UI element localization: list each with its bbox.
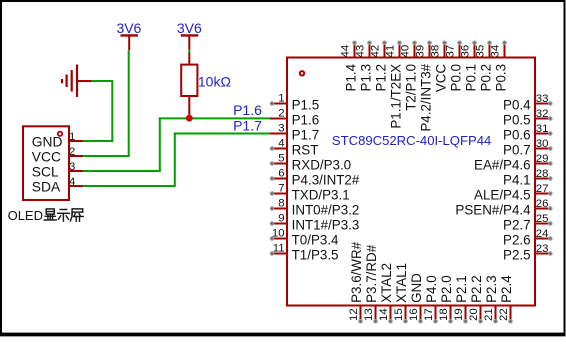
CJK char shi (58, 210, 69, 222)
wire gnd to OLED pin1 (83, 140, 113, 142)
svg-text:3V6: 3V6 (177, 20, 202, 36)
svg-text:P1.4: P1.4 (343, 63, 358, 91)
svg-text:P0.1: P0.1 (463, 64, 478, 92)
svg-text:P1.3: P1.3 (358, 64, 373, 92)
OLED pin 2 VCC (69, 155, 83, 157)
svg-text:16: 16 (408, 308, 420, 321)
U1 pin 2 P1.6 (270, 118, 287, 120)
U1 pin 15 XTAL1 (405, 306, 407, 322)
svg-text:22: 22 (498, 308, 510, 321)
svg-text:P1.7: P1.7 (292, 127, 320, 142)
U1 pin 38 VCC (444, 44, 446, 58)
svg-text:OLED: OLED (8, 208, 43, 223)
svg-text:P0.2: P0.2 (478, 64, 493, 92)
U1 pin 42 P1.2 (384, 44, 386, 58)
wire 3V6 to OLED pin2 (83, 155, 129, 157)
svg-text:T1/P3.5: T1/P3.5 (292, 247, 339, 262)
svg-text:P2.6: P2.6 (503, 232, 531, 247)
OLED pin-1 indicator circle (58, 132, 62, 136)
svg-text:P0.0: P0.0 (448, 64, 463, 92)
svg-text:1: 1 (69, 131, 75, 143)
svg-text:8: 8 (278, 197, 284, 209)
U1 pin 44 P1.4 (354, 44, 356, 58)
svg-text:39: 39 (415, 45, 427, 58)
wire SDA horizontal (83, 185, 176, 187)
U1 pin 20 P2.2 (480, 306, 482, 322)
svg-text:P4.3/INT2#: P4.3/INT2# (292, 172, 360, 187)
svg-text:1: 1 (278, 92, 284, 104)
U1 pin-1 indicator circle (300, 71, 304, 75)
U1 pin 41 P1.1/T2EX (399, 44, 401, 58)
svg-text:P2.3: P2.3 (484, 275, 499, 303)
svg-text:4: 4 (69, 176, 75, 188)
svg-text:18: 18 (438, 308, 450, 321)
svg-text:5: 5 (278, 152, 284, 164)
svg-text:10: 10 (272, 227, 285, 239)
svg-text:GND: GND (32, 135, 63, 150)
svg-text:34: 34 (490, 45, 502, 58)
svg-text:36: 36 (460, 45, 472, 58)
U1 pin 8 INT0#/P3.2 (272, 208, 287, 210)
wire net P1.6 (159, 117, 270, 119)
svg-text:32: 32 (536, 108, 549, 120)
U1 pin 36 P0.1 (474, 44, 476, 58)
U1 pin 43 P1.3 (369, 44, 371, 58)
svg-text:P0.5: P0.5 (503, 112, 531, 127)
OLED pin 4 SDA (69, 185, 83, 187)
wire 3V6 vertical (128, 50, 130, 156)
U1 pin 31 P0.6 (535, 133, 550, 135)
svg-text:23: 23 (536, 243, 549, 255)
svg-text:37: 37 (445, 45, 457, 58)
svg-text:7: 7 (278, 182, 284, 194)
svg-text:41: 41 (385, 45, 397, 58)
U1 pin 11 T1/P3.5 (272, 253, 287, 255)
wire gnd horizontal (91, 80, 113, 82)
wire SDA vertical (174, 132, 176, 186)
svg-text:T2/P1.0: T2/P1.0 (403, 64, 418, 111)
svg-text:VCC: VCC (433, 64, 448, 93)
U1 pin 39 P4.2/INT3# (429, 44, 431, 58)
svg-text:40: 40 (400, 45, 412, 58)
svg-text:20: 20 (468, 308, 480, 321)
svg-text:P1.6: P1.6 (292, 112, 320, 127)
svg-text:P0.6: P0.6 (503, 127, 531, 142)
svg-text:TXD/P3.1: TXD/P3.1 (292, 187, 350, 202)
svg-text:XTAL2: XTAL2 (379, 263, 394, 303)
svg-text:27: 27 (536, 183, 549, 195)
svg-text:XTAL1: XTAL1 (394, 263, 409, 303)
U1 pin 1 P1.5 (272, 103, 287, 105)
svg-text:28: 28 (536, 168, 549, 180)
svg-text:38: 38 (430, 45, 442, 58)
svg-text:P1.2: P1.2 (373, 64, 388, 92)
U1 pin 19 P2.1 (465, 306, 467, 322)
svg-text:PSEN#/P4.4: PSEN#/P4.4 (455, 202, 531, 217)
svg-text:ALE/P4.5: ALE/P4.5 (474, 187, 531, 202)
U1 pin 6 P4.3/INT2# (272, 178, 287, 180)
U1 pin 24 P2.6 (535, 238, 550, 240)
U1 pin 28 P4.1 (535, 178, 550, 180)
U1 pin 35 P0.2 (489, 44, 491, 58)
svg-text:6: 6 (278, 167, 284, 179)
svg-text:P3.7/RD#: P3.7/RD# (364, 244, 379, 303)
U1 pin 27 ALE/P4.5 (535, 193, 550, 195)
U1 pin 4 RST (272, 148, 287, 150)
U1 pin 30 P0.7 (535, 148, 550, 150)
U1 pin 32 P0.5 (535, 118, 550, 120)
svg-text:P2.7: P2.7 (503, 217, 531, 232)
svg-text:31: 31 (536, 123, 549, 135)
wire SCL vertical (159, 117, 161, 171)
resistor R1 body (181, 65, 197, 96)
svg-text:21: 21 (483, 308, 495, 321)
svg-text:10kΩ: 10kΩ (198, 74, 231, 90)
IC U1 STC89C52RC body (287, 58, 535, 306)
svg-text:3V6: 3V6 (116, 20, 141, 36)
svg-text:RST: RST (292, 142, 319, 157)
svg-text:EA#/P4.6: EA#/P4.6 (474, 157, 531, 172)
svg-text:14: 14 (378, 308, 390, 321)
U1 pin 3 P1.7 (270, 133, 287, 135)
svg-text:RXD/P3.0: RXD/P3.0 (292, 157, 352, 172)
svg-text:P0.3: P0.3 (493, 64, 508, 92)
svg-text:43: 43 (355, 45, 367, 58)
svg-text:35: 35 (475, 45, 487, 58)
svg-text:29: 29 (536, 153, 549, 165)
svg-text:P3.6/WR#: P3.6/WR# (349, 241, 364, 303)
svg-text:P4.2/INT3#: P4.2/INT3# (418, 63, 433, 131)
svg-text:9: 9 (278, 212, 284, 224)
U1 pin 26 PSEN#/P4.4 (535, 208, 550, 210)
svg-text:26: 26 (536, 198, 549, 210)
U1 pin 12 P3.6/WR# (360, 306, 362, 322)
svg-text:15: 15 (393, 308, 405, 321)
svg-text:P1.1/T2EX: P1.1/T2EX (388, 64, 403, 129)
ground symbol (76, 65, 78, 98)
svg-text:3: 3 (69, 161, 75, 173)
svg-text:P2.5: P2.5 (503, 247, 531, 262)
svg-text:P2.0: P2.0 (439, 275, 454, 303)
svg-text:33: 33 (536, 93, 549, 105)
wire SCL horizontal (83, 170, 161, 172)
svg-text:P1.5: P1.5 (292, 97, 320, 112)
U1 pin 29 EA#/P4.6 (535, 163, 550, 165)
wire 3V6 to resistor (188, 50, 190, 53)
svg-text:4: 4 (278, 137, 284, 149)
wire gnd vertical (111, 81, 113, 141)
resistor R1 lower lead (188, 96, 190, 118)
svg-text:P0.7: P0.7 (503, 142, 531, 157)
svg-text:2: 2 (69, 146, 75, 158)
svg-text:25: 25 (536, 213, 549, 225)
svg-text:11: 11 (273, 242, 285, 254)
svg-text:44: 44 (340, 45, 352, 58)
svg-text:SDA: SDA (32, 180, 61, 195)
U1 pin 21 P2.3 (495, 306, 497, 322)
svg-text:SCL: SCL (32, 165, 59, 180)
U1 pin 33 P0.4 (535, 103, 550, 105)
U1 pin 23 P2.5 (535, 253, 550, 255)
U1 pin 13 P3.7/RD# (375, 306, 377, 322)
svg-text:30: 30 (536, 138, 549, 150)
svg-text:GND: GND (409, 273, 424, 303)
resistor R1 10k upper lead (188, 53, 190, 65)
U1 pin 40 T2/P1.0 (414, 44, 416, 58)
svg-text:INT0#/P3.2: INT0#/P3.2 (292, 202, 360, 217)
junction dot (186, 115, 193, 122)
svg-text:VCC: VCC (32, 150, 61, 165)
svg-text:STC89C52RC-40I-LQFP44: STC89C52RC-40I-LQFP44 (332, 133, 491, 148)
svg-text:INT1#/P3.3: INT1#/P3.3 (292, 217, 360, 232)
svg-text:42: 42 (370, 45, 382, 58)
OLED pin 1 GND (69, 140, 83, 142)
svg-text:12: 12 (348, 308, 360, 321)
svg-text:T0/P3.4: T0/P3.4 (292, 232, 339, 247)
svg-text:2: 2 (278, 107, 284, 119)
svg-text:P2.2: P2.2 (469, 275, 484, 303)
U1 pin 17 P4.0 (435, 306, 437, 322)
U1 pin 25 P2.7 (535, 223, 550, 225)
U1 pin 7 TXD/P3.1 (272, 193, 287, 195)
svg-text:19: 19 (453, 308, 465, 321)
connector OLED body (23, 126, 69, 200)
svg-text:17: 17 (423, 308, 435, 321)
svg-text:3: 3 (278, 122, 284, 134)
U1 pin 9 INT1#/P3.3 (272, 223, 287, 225)
U1 pin 37 P0.0 (459, 44, 461, 58)
svg-text:P4.0: P4.0 (424, 275, 439, 303)
svg-text:24: 24 (536, 228, 549, 240)
svg-text:13: 13 (363, 308, 375, 321)
CJK char ping (70, 209, 83, 221)
U1 pin 22 P2.4 (510, 306, 512, 322)
U1 pin 18 P2.0 (450, 306, 452, 322)
svg-text:P2.4: P2.4 (499, 275, 514, 303)
svg-text:P4.1: P4.1 (503, 172, 531, 187)
svg-text:P1.7: P1.7 (233, 117, 262, 133)
U1 pin 5 RXD/P3.0 (272, 163, 287, 165)
wire net P1.7 (174, 133, 270, 135)
U1 pin 34 P0.3 (504, 44, 506, 58)
CJK char xian (44, 209, 56, 220)
svg-text:P1.6: P1.6 (233, 102, 262, 118)
U1 pin 10 T0/P3.4 (272, 238, 287, 240)
U1 pin 16 GND (420, 306, 422, 322)
svg-text:P0.4: P0.4 (503, 97, 531, 112)
svg-text:P2.1: P2.1 (454, 275, 469, 303)
U1 pin 14 XTAL2 (390, 306, 392, 322)
OLED pin 3 SCL (69, 170, 83, 172)
